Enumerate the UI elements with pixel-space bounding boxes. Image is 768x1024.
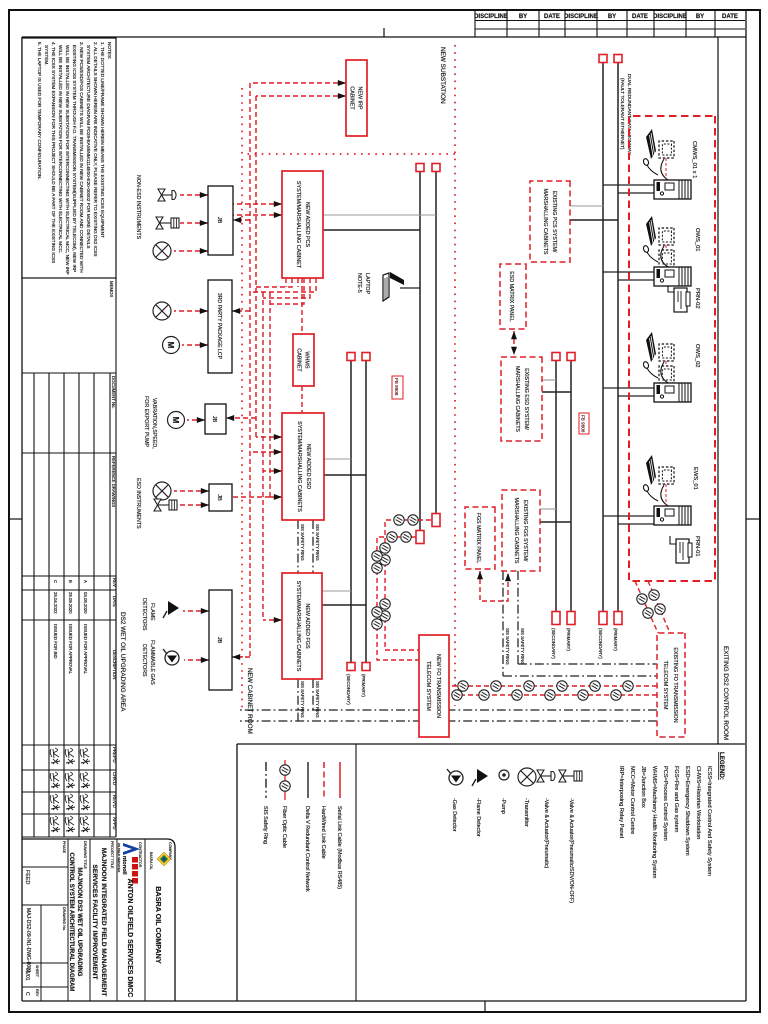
- svg-text:CONTRACTOR: CONTRACTOR: [138, 842, 142, 868]
- svg-text:FB 9808: FB 9808: [581, 415, 586, 433]
- junction box JB4: [209, 590, 232, 690]
- svg-text:A: A: [83, 580, 88, 583]
- junction box JB2: [205, 404, 226, 434]
- svg-text:PCS=Process Control System: PCS=Process Control System: [662, 766, 668, 841]
- svg-text:MARSHALLING CABINETS: MARSHALLING CABINETS: [513, 498, 519, 564]
- svg-text:Delta V Redundant Control Netw: Delta V Redundant Control Network: [304, 806, 310, 892]
- svg-text:DETECTORS: DETECTORS: [141, 598, 147, 631]
- svg-text:(PRIMARY): (PRIMARY): [566, 628, 571, 651]
- svg-text:(SECONDARY): (SECONDARY): [346, 674, 351, 705]
- svg-text:LAPTOP: LAPTOP: [364, 273, 370, 295]
- inner frame: top strip line: [22, 36, 746, 38]
- svg-text:JB: JB: [216, 217, 222, 224]
- inner frame: right line: [745, 10, 747, 1001]
- svg-text:MEMOS: MEMOS: [109, 281, 114, 297]
- instrument: valve SDV (ESD): [154, 499, 177, 511]
- svg-text:JB: JB: [211, 416, 217, 423]
- svg-text:28.09.2020: 28.09.2020: [68, 592, 73, 614]
- svg-text:NOTE-5: NOTE-5: [356, 273, 362, 293]
- svg-text:MARSHALLING CABINETS: MARSHALLING CABINETS: [542, 189, 548, 255]
- svg-text:EWS_01: EWS_01: [692, 467, 698, 490]
- svg-text:ESD MATRIX PANEL: ESD MATRIX PANEL: [508, 271, 514, 321]
- svg-text:MCC=Motor Control Centre: MCC=Motor Control Centre: [629, 766, 635, 834]
- wire: FO path from pair1 terminal A: [385, 520, 431, 650]
- svg-text:REFERENCE DRAWINGS: REFERENCE DRAWINGS: [111, 456, 116, 507]
- instrument: flame detector: [163, 601, 179, 618]
- wire: bundle drop to JB1: [233, 219, 250, 221]
- node terminals: pair2: [362, 353, 370, 361]
- svg-text:ANTON OILFIELD SERVICES DMCC: ANTON OILFIELD SERVICES DMCC: [126, 879, 133, 998]
- notes box: [22, 38, 116, 278]
- svg-text:SYSTEM.: SYSTEM.: [44, 45, 49, 66]
- svg-text:EXISTING PCS SYSTEM/: EXISTING PCS SYSTEM/: [551, 191, 557, 253]
- wire: FGS bottom feed: [263, 619, 282, 621]
- wire: SIS ring existing FGS elbow 2: [503, 571, 657, 676]
- svg-text:PRN-01: PRN-01: [694, 536, 700, 557]
- svg-text:4. THE ICSS SYSTEM EXPANSION F: 4. THE ICSS SYSTEM EXPANSION FOR THIS PR…: [51, 42, 56, 263]
- legend cable: delta V network: [307, 762, 309, 798]
- cabinet: NEW FO TRANSMISSION TELECOM SYSTEM: [419, 635, 449, 737]
- svg-text:BY: BY: [696, 14, 704, 20]
- svg-text:01/01: 01/01: [24, 968, 30, 981]
- legend cable: fiber optic: [284, 760, 286, 800]
- svg-text:CHWS=Historian Workstation: CHWS=Historian Workstation: [695, 766, 701, 839]
- instrument: motor (export pump): [168, 412, 185, 429]
- inner frame: bottom line: [22, 1000, 746, 1002]
- svg-text:FGS MATRIX PANEL: FGS MATRIX PANEL: [475, 513, 481, 563]
- wire: instrument lead JB2: [187, 419, 205, 421]
- laptop icon: [383, 272, 404, 301]
- wire: JB3 riser: [232, 496, 270, 498]
- svg-text:DATE: DATE: [112, 596, 117, 607]
- red dashed interconnection bundle: [174, 83, 514, 660]
- svg-text:MAJNOON DS2 WET OIL UPGRADING: MAJNOON DS2 WET OIL UPGRADING: [76, 868, 82, 977]
- svg-text:-Gas Detector: -Gas Detector: [451, 798, 457, 832]
- svg-text:FGS=Fire and Gas system: FGS=Fire and Gas system: [673, 766, 679, 833]
- svg-text:-Pump: -Pump: [500, 798, 506, 814]
- instrument: gas detector: [163, 649, 179, 665]
- legend cable: hardwired link: [323, 762, 325, 798]
- svg-text:NEW IRP: NEW IRP: [357, 86, 363, 109]
- svg-text:SIS SAFETY RING: SIS SAFETY RING: [300, 524, 305, 561]
- wire: WHMS to ESD: [301, 386, 303, 413]
- svg-text:PHASE: PHASE: [62, 841, 66, 854]
- wire: instrument leads JB4: [183, 610, 209, 612]
- svg-text:NEW FO TRANSMISSION: NEW FO TRANSMISSION: [435, 654, 441, 718]
- svg-text:1. THE DOTTED LINE/FRAME SHOWN: 1. THE DOTTED LINE/FRAME SHOWN HEREIN ME…: [100, 42, 105, 238]
- svg-text:C: C: [53, 580, 58, 583]
- svg-text:NOTES:: NOTES:: [107, 42, 112, 59]
- workstation taps OWS_01: [603, 271, 654, 273]
- svg-text:LEGEND:: LEGEND:: [718, 752, 725, 780]
- svg-text:ISSUED FOR APPROVAL: ISSUED FOR APPROVAL: [83, 624, 88, 675]
- svg-text:-Transmitter: -Transmitter: [523, 798, 529, 827]
- centre tick right: [746, 518, 760, 520]
- new ESD risers to pair 2: [324, 458, 351, 460]
- wire: LCP riser: [232, 310, 250, 312]
- existing box: EXISTING PCS: [530, 181, 570, 262]
- svg-text:5. THE LAPTOP IS USED FOR TEMP: 5. THE LAPTOP IS USED FOR TEMPORARY CONF…: [37, 42, 42, 180]
- Delta V network pair 2 (ESD/FGS) line A: [365, 360, 367, 665]
- svg-text:B: B: [68, 580, 73, 583]
- existing ESD network pair 3 line A: [570, 360, 572, 612]
- cabinet: NEW IRP CABINET: [346, 60, 367, 136]
- existing box: EXISTING ESD: [501, 357, 542, 441]
- svg-text:SIS SAFETY RING: SIS SAFETY RING: [315, 524, 320, 561]
- instrument: motor (3rd party): [163, 337, 180, 354]
- svg-text:DATE: DATE: [544, 14, 560, 20]
- wire: FO diagonal to existing telecom 1: [648, 581, 670, 633]
- svg-text:SYSTEM ARCHITECTURE DIAGRAM FD: SYSTEM ARCHITECTURE DIAGRAM FD29-BAS5NM1…: [86, 45, 91, 248]
- svg-text:WILL BE INSTALLED IN NEW SUBST: WILL BE INSTALLED IN NEW SUBSTATION FOR …: [58, 45, 63, 253]
- svg-text:NON-ESD INSTRUMENTS: NON-ESD INSTRUMENTS: [135, 175, 141, 240]
- workstation taps OWS_02: [603, 387, 654, 389]
- dual redundant data highway trunk line B: [602, 62, 604, 612]
- svg-text:JB: JB: [216, 494, 222, 501]
- svg-text:HardWired Link Cable: HardWired Link Cable: [320, 806, 326, 859]
- wire: SIS ring long vertical 2: [240, 720, 657, 722]
- svg-text:26.04.2022: 26.04.2022: [53, 592, 58, 614]
- svg-text:SYSTEM/MARSHALLING CABINETS: SYSTEM/MARSHALLING CABINETS: [295, 581, 301, 672]
- svg-text:DRAWING No.: DRAWING No.: [62, 907, 66, 931]
- svg-text:ESD INSTRUMENTS: ESD INSTRUMENTS: [135, 478, 141, 529]
- SIS safety ring dash-dot wires: [240, 520, 657, 721]
- svg-text:PROJECT TITLE: PROJECT TITLE: [110, 841, 114, 869]
- svg-text:VABRATION,SPEED,: VABRATION,SPEED,: [151, 398, 157, 449]
- svg-text:FB 9808: FB 9808: [394, 378, 399, 396]
- wire: SIS ring FGS to telecom riser 2: [297, 679, 299, 721]
- zone boundary dotted: control room / cabinet room split: [454, 45, 456, 706]
- Delta V network pair 1 (new PCS) line A: [435, 168, 437, 514]
- svg-text:JB: JB: [216, 637, 222, 644]
- svg-text:SERVICES FACILITY IMPROVEMENT: SERVICES FACILITY IMPROVEMENT: [91, 864, 98, 979]
- wire: riser to IRP cabinet 1: [250, 82, 346, 84]
- Delta V network pair 2 line B: [350, 360, 352, 665]
- net label FB9808 near pair2: [392, 376, 403, 399]
- zone boundary dotted: substation divider: [242, 153, 455, 155]
- existing box: ESD MATRIX PANEL: [500, 264, 526, 329]
- node terminals: pair1: [432, 164, 440, 172]
- svg-text:CHK'D: CHK'D: [112, 772, 117, 785]
- svg-text:DRAWING TITLE: DRAWING TITLE: [83, 841, 87, 870]
- svg-text:WHMS=Machinery Health Monitori: WHMS=Machinery Health Monitoring System: [651, 766, 657, 879]
- existing PCS risers to trunk: [570, 205, 603, 207]
- existing ESD risers to pair 3: [542, 379, 556, 381]
- svg-text:ICSS=Integrated Control And Sa: ICSS=Integrated Control And Safety Syste…: [706, 766, 712, 876]
- FO splice circles on pair1 paths: [372, 515, 418, 629]
- svg-text:ISSUED FOR BID: ISSUED FOR BID: [53, 624, 58, 659]
- svg-text:MARSHALLING CABINETS: MARSHALLING CABINETS: [514, 366, 520, 432]
- svg-text:DATE: DATE: [722, 14, 738, 20]
- legend symbol: transmitter: [518, 768, 536, 786]
- svg-text:IRP=Interposing Relay Panel: IRP=Interposing Relay Panel: [618, 766, 624, 838]
- svg-text:DATE: DATE: [632, 14, 648, 20]
- drawing area boundary line: [717, 37, 719, 744]
- wire: bundle line 4: [269, 292, 271, 497]
- instrument: valve w/ SDV actuator (non-ESD): [156, 217, 179, 229]
- svg-text:BASRA OIL COMPANY: BASRA OIL COMPANY: [154, 886, 163, 964]
- legend acronym list: [618, 766, 712, 879]
- wire: bundle line 3: [262, 292, 264, 620]
- svg-text:-Flame Detector: -Flame Detector: [475, 798, 481, 837]
- legend symbol: valve pneumatic: [537, 770, 555, 782]
- wire: FGS matrix link: [480, 571, 508, 601]
- existing box: EXISTING FO TELECOM: [657, 633, 685, 737]
- wire: instrument leads JB1: [180, 194, 208, 196]
- cabinet: WHMS CABINET: [293, 334, 314, 386]
- svg-text:03.08.2020: 03.08.2020: [83, 592, 88, 614]
- legend symbol: valve SDV: [559, 770, 582, 782]
- junction box 3RD PARTY PACKAGE LCP: [208, 280, 232, 373]
- wire: ESD bottom feeds: [256, 436, 282, 438]
- wire: SIS ring long vertical 1: [240, 709, 657, 711]
- Delta V network pair 1 line B: [419, 168, 421, 531]
- svg-text:SIS SAFETY RING: SIS SAFETY RING: [315, 681, 320, 718]
- svg-text:OWS_02: OWS_02: [694, 344, 700, 368]
- junction box JB1: [208, 186, 233, 255]
- node terminals: trunk left: [614, 55, 622, 63]
- svg-text:SHEET: SHEET: [35, 965, 39, 978]
- workstation OWS_01: [643, 216, 700, 286]
- junction box JB3: [209, 484, 232, 511]
- svg-text:SYSTEM/MARSHALLING CABINETS: SYSTEM/MARSHALLING CABINETS: [296, 421, 302, 512]
- svg-text:(FAULT TOLERANT ETHERNET): (FAULT TOLERANT ETHERNET): [619, 78, 625, 150]
- svg-text:DETECTORS: DETECTORS: [141, 644, 147, 677]
- wire: SIS ring ESD to FGS (pair): [312, 520, 314, 573]
- svg-text:DISCIPLINE: DISCIPLINE: [474, 14, 508, 20]
- svg-text:EXISTING FGS SYSTEM/: EXISTING FGS SYSTEM/: [522, 500, 528, 562]
- workstation OWS_02: [643, 332, 700, 402]
- svg-text:DISCIPLINE: DISCIPLINE: [564, 14, 598, 20]
- svg-text:Fiber Optic Cable: Fiber Optic Cable: [281, 806, 287, 848]
- svg-text:NEW ADDED ESD: NEW ADDED ESD: [305, 444, 311, 489]
- wire: FO trunk line 2: [449, 694, 657, 696]
- inner frame: left line: [21, 37, 23, 1001]
- svg-text:REV: REV: [35, 989, 39, 997]
- svg-text:-Valve & Actuator(Pneumatic/SD: -Valve & Actuator(Pneumatic/SDV/ON-OFF): [568, 798, 574, 903]
- svg-text:REV: REV: [112, 578, 117, 587]
- cabinet: NEW ADDED ESD: [282, 413, 324, 520]
- svg-text:TELECOM SYSTEM: TELECOM SYSTEM: [662, 661, 668, 710]
- new FGS risers to pair 2: [322, 590, 351, 592]
- svg-text:ESD=Emergency Shutdown System: ESD=Emergency Shutdown System: [684, 766, 690, 856]
- svg-text:CMWS_01 x 1: CMWS_01 x 1: [691, 141, 697, 178]
- svg-text:OILFIELD SERVICES: OILFIELD SERVICES: [117, 843, 121, 872]
- wire: bundle line 1: [249, 83, 251, 657]
- wire: SIS ring FGS to telecom riser 1: [312, 679, 314, 710]
- node terminals: pair3: [567, 353, 575, 361]
- instrument: transmitter (non-ESD): [153, 242, 171, 260]
- svg-text:SIS SAFETY RING: SIS SAFETY RING: [520, 628, 525, 665]
- svg-text:EXISTING ESD SYSTEM/: EXISTING ESD SYSTEM/: [523, 368, 529, 430]
- revision strip table top-right: [475, 10, 745, 37]
- svg-text:BY: BY: [519, 14, 527, 20]
- wire: JB4 riser: [232, 656, 250, 658]
- svg-text:CABINET: CABINET: [349, 86, 355, 110]
- svg-text:ISSUED FOR APPROVAL: ISSUED FOR APPROVAL: [68, 624, 73, 675]
- centre tick bottom: [484, 1001, 486, 1012]
- svg-text:3RD PARTY PACKAGE LCP: 3RD PARTY PACKAGE LCP: [216, 293, 222, 360]
- svg-text:FEED: FEED: [24, 870, 30, 884]
- svg-text:WHMS: WHMS: [304, 351, 310, 368]
- wire: instrument leads LCP: [174, 310, 208, 312]
- svg-text:NEW ADDED PCS: NEW ADDED PCS: [304, 202, 310, 248]
- centre tick left: [9, 518, 22, 520]
- svg-text:PRN-02: PRN-02: [694, 288, 700, 309]
- svg-text:(SECONDARY): (SECONDARY): [551, 628, 556, 659]
- svg-text:(PRIMARY): (PRIMARY): [613, 628, 618, 651]
- pair 3 line B: [555, 360, 557, 612]
- wire: bundle line 2: [255, 96, 257, 437]
- svg-text:MAJ-DS2-09-IN1-DWG-0001: MAJ-DS2-09-IN1-DWG-0001: [25, 908, 31, 973]
- net label FB9808 on trunk: [579, 413, 589, 434]
- legend symbol: flame detector: [472, 769, 488, 786]
- cabinet: NEW ADDED FGS: [282, 573, 322, 679]
- existing FGS risers to pair 3: [540, 508, 556, 510]
- svg-text:CABINET: CABINET: [296, 348, 302, 372]
- wire: JB1 risers to PCS: [233, 203, 282, 205]
- existing box: EXISTING FGS: [502, 490, 540, 571]
- svg-text:SIS SAFETY RING: SIS SAFETY RING: [505, 628, 510, 665]
- instrument: transmitter (3rd party): [153, 302, 171, 320]
- svg-text:REV'D: REV'D: [112, 795, 117, 808]
- centre tick top: [383, 28, 385, 37]
- new PCS risers to pair 1: [323, 214, 436, 216]
- svg-text:SIS Safety Ring: SIS Safety Ring: [262, 806, 268, 844]
- svg-text:PREP'D: PREP'D: [112, 747, 117, 763]
- workstation group dashed border: [629, 116, 715, 581]
- svg-text:MAJNOON INTEGRATED FIELD MANAG: MAJNOON INTEGRATED FIELD MANAGEMENT: [100, 848, 107, 997]
- svg-text:-Valve & Actuator(Pneumatic): -Valve & Actuator(Pneumatic): [543, 798, 549, 869]
- laptop tap: [400, 287, 420, 289]
- fiber optic trunk between FO boxes: line 1: [377, 520, 670, 695]
- wire: riser to IRP cabinet 2: [256, 95, 346, 97]
- existing box: FGS MATRIX PANEL: [465, 507, 495, 569]
- workstation taps CMWS: [603, 184, 654, 186]
- wire: FO diagonal to existing telecom 2: [635, 581, 658, 633]
- legend panel border: [237, 743, 745, 745]
- workstation CMWS_01: [643, 129, 697, 199]
- wire: instrument leads JB3: [174, 490, 209, 492]
- dual redundant data highway trunk line A: [617, 62, 619, 612]
- wire: SIS ring existing FGS elbow 1: [518, 571, 657, 664]
- wire: PCS fan stubs: [250, 278, 316, 292]
- workstation EWS_01: [643, 455, 698, 525]
- wire: ESD matrix link: [513, 331, 515, 355]
- svg-text:EXITING DS2 CONTROL ROOM: EXITING DS2 CONTROL ROOM: [722, 646, 729, 740]
- svg-text:2. ALL DETAILS SHOWN HEREIN AR: 2. ALL DETAILS SHOWN HEREIN ARE INDICATI…: [93, 42, 98, 256]
- svg-text:NEW CABINET ROOM: NEW CABINET ROOM: [246, 668, 253, 734]
- svg-text:TELECOM SYSTEM: TELECOM SYSTEM: [425, 661, 431, 711]
- svg-text:FLAMMABLE GAS: FLAMMABLE GAS: [149, 640, 155, 685]
- svg-text:(PRIMARY): (PRIMARY): [361, 674, 366, 697]
- svg-text:NEW SUBSTATION: NEW SUBSTATION: [439, 47, 446, 104]
- instrument: transmitter (ESD): [153, 482, 171, 500]
- svg-text:BY: BY: [608, 14, 616, 20]
- printer PRN-02: [668, 286, 700, 312]
- svg-text:CONTROL SYSTEM ARCHITECTURAL D: CONTROL SYSTEM ARCHITECTURAL DIAGRAM: [68, 853, 74, 992]
- workstation taps EWS_01: [603, 515, 654, 517]
- svg-text:SYSTEM/MARSHALLING CABINET: SYSTEM/MARSHALLING CABINET: [295, 181, 301, 269]
- svg-text:BASRA OIL: BASRA OIL: [149, 852, 153, 870]
- svg-text:FLAME: FLAME: [149, 603, 155, 621]
- zone boundary dotted: new cabinet room / field split: [241, 88, 243, 712]
- svg-text:APP'D: APP'D: [112, 817, 117, 830]
- svg-text:JB=Junction Box: JB=Junction Box: [640, 766, 646, 808]
- printer PRN-01: [670, 536, 700, 563]
- svg-text:DOCUMENT No.: DOCUMENT No.: [111, 376, 116, 409]
- arrowheads: [197, 80, 517, 663]
- node terminals: trunk right + labels: [614, 612, 622, 625]
- svg-text:(SECONDARY): (SECONDARY): [598, 628, 603, 659]
- wire: FO path from pair1 terminal B: [377, 537, 419, 660]
- svg-text:DS2 WET OIL UPGRADING AREA: DS2 WET OIL UPGRADING AREA: [119, 612, 126, 712]
- svg-text:OWS_01: OWS_01: [694, 228, 700, 252]
- legend cable: SIS safety ring: [265, 762, 267, 798]
- svg-text:EXISTING ICSS SYSTEM THROUGH F: EXISTING ICSS SYSTEM THROUGH F.O. TRANSM…: [72, 45, 77, 272]
- svg-text:EXISTING FO TRANSMISSION: EXISTING FO TRANSMISSION: [672, 647, 678, 722]
- svg-text:C: C: [24, 992, 30, 996]
- svg-text:FOR EXPORT PUMP: FOR EXPORT PUMP: [143, 396, 149, 447]
- svg-text:NEW ADDED FGS: NEW ADDED FGS: [304, 603, 310, 649]
- svg-text:DESCRIPTION: DESCRIPTION: [112, 650, 117, 679]
- title block outline: [167, 839, 175, 1001]
- left strip table: [22, 278, 116, 837]
- FO splice circles on trunk: [452, 681, 633, 700]
- cabinet: NEW ADDED PCS: [282, 171, 323, 278]
- svg-text:3. NEW PCS/ESD/FGS CABINETS WI: 3. NEW PCS/ESD/FGS CABINETS WILL BE INST…: [79, 42, 84, 273]
- svg-text:Serial Link Cable (Modbus RS48: Serial Link Cable (Modbus RS485): [336, 806, 342, 889]
- svg-text:SIS SAFETY RING: SIS SAFETY RING: [300, 681, 305, 718]
- SIS ring labels: [300, 524, 525, 718]
- wire: PCS to WHMS: [301, 278, 303, 334]
- legend symbol: pump: [499, 770, 509, 780]
- wire: JB2 riser: [226, 417, 256, 419]
- legend symbol: gas detector: [447, 769, 463, 785]
- legend cable: serial link: [339, 762, 341, 798]
- svg-text:WILL BE INSTALLED IN NEW SUBST: WILL BE INSTALLED IN NEW SUBSTATION FOR …: [65, 45, 70, 275]
- svg-text:DISCIPLINE: DISCIPLINE: [653, 14, 687, 20]
- FO splice circles on diagonals: [649, 590, 659, 600]
- instrument: valve w/ actuator (non-ESD): [158, 189, 176, 201]
